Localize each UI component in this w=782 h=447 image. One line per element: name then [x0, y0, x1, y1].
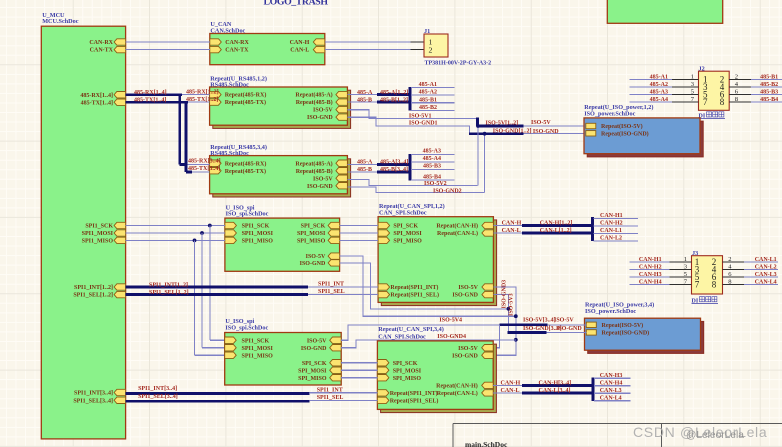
wire 485-A block2	[347, 163, 378, 165]
port SPI1_MISO ISO_spi2 left	[225, 352, 237, 358]
wire SPI1 from MCU	[126, 239, 225, 241]
junction	[514, 314, 518, 318]
port CAN-RX on U_MCU	[114, 39, 126, 45]
stub wire 485 group2 row3	[411, 169, 455, 171]
svg-text:ISO_spi.SchDoc: ISO_spi.SchDoc	[226, 211, 269, 218]
svg-text:Repeat(485-B): Repeat(485-B)	[296, 99, 333, 106]
junction	[193, 239, 197, 243]
wire ISO-5V3 vertical	[493, 287, 516, 355]
wire SPI	[340, 232, 379, 234]
svg-text:8: 8	[712, 279, 717, 289]
svg-text:485-A[3..4]: 485-A[3..4]	[380, 160, 408, 166]
svg-text:485-B: 485-B	[357, 167, 372, 173]
svg-text:SPI_SCK: SPI_SCK	[393, 224, 418, 230]
wire SPI1_SEL lower	[310, 399, 378, 401]
svg-text:CAN-L4: CAN-L4	[755, 280, 777, 286]
wire CAN-L3 from J3	[744, 276, 778, 278]
svg-text:2: 2	[429, 45, 433, 54]
svg-text:485-A1: 485-A1	[419, 82, 437, 88]
svg-text:SPI_MOSI: SPI_MOSI	[393, 231, 422, 237]
svg-text:Repeat(ISO-GND): Repeat(ISO-GND)	[601, 130, 649, 137]
svg-text:485-A: 485-A	[357, 160, 373, 166]
svg-text:485-A1: 485-A1	[650, 75, 668, 81]
svg-text:ISO-5V: ISO-5V	[458, 346, 478, 352]
riser to ISO_spi2	[201, 233, 203, 348]
wire SPI1 from MCU	[126, 225, 225, 227]
wire 485-A3 to J2	[630, 94, 672, 96]
svg-text:SPI1_MOSI: SPI1_MOSI	[242, 231, 274, 237]
svg-text:CAN-H4: CAN-H4	[639, 280, 662, 286]
svg-text:ISO_power.SchDoc: ISO_power.SchDoc	[585, 308, 636, 315]
svg-text:Repeat(485-RX): Repeat(485-RX)	[225, 92, 267, 99]
svg-text:SPI1_SCK: SPI1_SCK	[242, 338, 270, 344]
svg-text:ISO-5V: ISO-5V	[306, 254, 326, 260]
sheet symbol U_ISO_spi 1	[225, 218, 340, 271]
port CAN-TX on U_CAN left	[210, 46, 222, 52]
wire 485-B2 from J2	[751, 86, 782, 88]
svg-text:CAN-H: CAN-H	[501, 380, 521, 386]
svg-text:485-TX[1..4]: 485-TX[1..4]	[134, 98, 166, 104]
port Repeat(485-A) on RS485 3,4	[336, 160, 348, 166]
port Repeat(ISO-5V) ISO_power2	[586, 322, 596, 327]
wire CAN-H lower	[493, 384, 523, 386]
svg-text:Repeat(CAN-H): Repeat(CAN-H)	[436, 223, 478, 230]
wire SPI lower	[341, 362, 377, 364]
wire CAN-RX	[126, 41, 210, 43]
port ISO-5V CAN_SPI1 right	[482, 284, 494, 290]
svg-text:SPI_MISO: SPI_MISO	[297, 239, 326, 245]
svg-text:ISO-5V: ISO-5V	[307, 338, 327, 344]
svg-text:ISO-5V4: ISO-5V4	[439, 317, 462, 323]
svg-text:MCU.SchDoc: MCU.SchDoc	[42, 18, 79, 25]
svg-text:7: 7	[695, 279, 700, 289]
port CAN-TX on U_MCU	[114, 46, 126, 52]
svg-text:ISO_power.SchDoc: ISO_power.SchDoc	[584, 110, 635, 117]
pin 7 lead J2	[672, 101, 699, 103]
stub wire CAN group1	[594, 217, 638, 219]
wire CAN-L4 from J3	[744, 284, 778, 286]
svg-text:SPI_MISO: SPI_MISO	[298, 376, 327, 382]
stub wire CAN group1	[594, 225, 638, 227]
connector J1	[424, 34, 448, 57]
wire 485-A1 to J2	[630, 79, 672, 81]
wire CAN-TX	[126, 49, 210, 51]
port CAN-L on U_CAN right	[313, 46, 325, 52]
port ISO-5V on RS485 3,4	[336, 175, 348, 181]
svg-text:Repeat(SPI1_INT): Repeat(SPI1_INT)	[390, 284, 438, 291]
svg-text:SPI_MISO: SPI_MISO	[393, 239, 422, 245]
bus 485-A[3..4]	[377, 163, 411, 166]
port SPI_SCK ISO_spi2 right	[330, 360, 342, 366]
svg-text:485-RX[1..4]: 485-RX[1..4]	[80, 93, 113, 99]
svg-text:1: 1	[691, 73, 694, 80]
port SPI1_MOSI on U_MCU	[114, 230, 126, 236]
svg-text:J2: J2	[699, 65, 705, 72]
port Repeat(485-RX) on RS485 3,4	[210, 160, 222, 166]
svg-text:SPI1_MOSI: SPI1_MOSI	[242, 346, 274, 352]
svg-text:ISO-5V[3..4]: ISO-5V[3..4]	[523, 318, 556, 324]
svg-text:CAN-L2: CAN-L2	[600, 236, 622, 242]
svg-text:2: 2	[728, 256, 731, 263]
svg-text:SPI1_MISO: SPI1_MISO	[242, 239, 274, 245]
svg-text:SPI1_SEL: SPI1_SEL	[318, 289, 345, 295]
svg-text:Repeat(CAN-L): Repeat(CAN-L)	[437, 390, 478, 397]
svg-text:RS485.SchDoc: RS485.SchDoc	[210, 81, 249, 88]
port SPI1_INT[3..4] on U_MCU	[114, 389, 126, 395]
svg-text:ISO-5V2: ISO-5V2	[424, 181, 447, 187]
port Repeat(SPI1_SEL) CAN_SPI2 left	[377, 397, 389, 403]
wire 485-B3 from J2	[751, 94, 782, 96]
bus 485-B[1..2]	[377, 101, 411, 104]
svg-text:485-TX[1..2]: 485-TX[1..2]	[186, 97, 218, 103]
wire ISO-5V3 from ISO_spi1	[340, 256, 516, 316]
port SPI1_SEL[3..4] on U_MCU	[114, 397, 126, 403]
svg-text:CAN-H1: CAN-H1	[600, 213, 623, 219]
svg-text:SPI1_INT: SPI1_INT	[317, 388, 343, 394]
wire ISO-GND4	[341, 340, 516, 348]
wire CAN-L lower	[493, 392, 523, 394]
port Repeat(485-B) on RS485 3,4	[336, 168, 348, 174]
port SPI_MISO ISO_spi2 right	[330, 375, 342, 381]
pin 4 lead J2	[729, 86, 751, 88]
pin 1 lead J3	[670, 261, 692, 263]
svg-text:ISO-5V3: ISO-5V3	[509, 293, 515, 316]
port ISO-5V ISO_spi1 right	[328, 253, 340, 259]
wire ISO-GND1	[347, 117, 469, 134]
bus ISO-GND[3..4]	[508, 331, 547, 334]
junction	[483, 132, 487, 136]
stub wire CAN group2	[594, 377, 631, 379]
riser ISO-5V to block2	[477, 126, 479, 185]
sheet symbol top-right (cut off)	[607, 0, 722, 23]
stub wire CAN group2	[594, 392, 631, 394]
wire SPI1_INT	[308, 286, 378, 288]
svg-text:ISO-GND: ISO-GND	[307, 184, 333, 190]
svg-text:SPI_MOSI: SPI_MOSI	[297, 231, 326, 237]
pin 8 lead J3	[723, 284, 745, 286]
pin 2 lead J2	[729, 79, 751, 81]
svg-text:SPI1_MISO: SPI1_MISO	[242, 353, 274, 359]
svg-text:CAN-TX: CAN-TX	[225, 48, 249, 54]
svg-text:SPI1_SEL: SPI1_SEL	[317, 395, 344, 401]
svg-text:CAN_SPI.SchDoc: CAN_SPI.SchDoc	[378, 334, 426, 341]
sheet symbol Repeat(U_CAN_SPI,3,4)	[381, 344, 497, 413]
pin 5 lead J3	[670, 276, 692, 278]
svg-text:485-TX[1..4]: 485-TX[1..4]	[81, 100, 113, 106]
port SPI_MOSI ISO_spi2 right	[330, 367, 342, 373]
bus 485-RX[1..4]	[126, 93, 182, 96]
port ISO-GND ISO_spi1 right	[328, 260, 340, 266]
pin 1 lead J2	[672, 79, 699, 81]
wire to Repeat(485-RX) block2	[186, 163, 210, 165]
wire CAN-H2 to J3	[629, 269, 669, 271]
svg-text:485-B4: 485-B4	[760, 97, 778, 103]
port SPI_SCK ISO_spi1 right	[328, 222, 340, 228]
svg-text:CAN-H1: CAN-H1	[639, 257, 662, 263]
svg-text:CAN-H2: CAN-H2	[639, 265, 662, 271]
port Repeat(485-B) on RS485 1,2	[336, 99, 348, 105]
svg-text:Repeat(SPI1_SEL): Repeat(SPI1_SEL)	[390, 292, 439, 299]
svg-text:Repeat(CAN-H): Repeat(CAN-H)	[436, 383, 478, 390]
wire 485-B1 from J2	[751, 79, 782, 81]
port SPI_MISO CAN_SPI1 left	[378, 237, 390, 243]
port 485-RX[1..4] on U_MCU	[114, 92, 126, 98]
port SPI_MISO CAN_SPI2 left	[377, 375, 389, 381]
svg-text:SPI_SCK: SPI_SCK	[301, 224, 326, 230]
svg-text:CAN-L2: CAN-L2	[755, 265, 777, 271]
svg-text:485-A4: 485-A4	[423, 156, 441, 162]
pin 2 lead of J1	[411, 49, 425, 51]
port SPI1_MOSI ISO_spi1 left	[225, 230, 237, 236]
svg-text:485-B[1..2]: 485-B[1..2]	[380, 97, 408, 103]
sheet symbol Repeat(U_RS485,1,2)	[213, 90, 351, 128]
svg-text:CAN-L4: CAN-L4	[600, 396, 622, 402]
stub wire 485 group1 row1	[411, 87, 455, 89]
svg-text:LOGO_TRASH: LOGO_TRASH	[264, 0, 329, 7]
svg-text:485-A3: 485-A3	[650, 90, 668, 96]
svg-text:SPI1_INT[1..2]: SPI1_INT[1..2]	[149, 282, 188, 288]
port Repeat(ISO-GND) ISO_power2	[586, 330, 596, 335]
port ISO-5V CAN_SPI2 right	[482, 345, 494, 351]
svg-text:CAN-H[3..4]: CAN-H[3..4]	[539, 380, 572, 386]
svg-text:ISO-GND3: ISO-GND3	[501, 280, 507, 309]
wire ISO-GND to ISO_power2	[547, 331, 587, 333]
svg-text:Repeat(485-A): Repeat(485-A)	[295, 92, 332, 99]
sheet symbol U_ISO_spi 2	[225, 333, 342, 386]
svg-text:8: 8	[720, 97, 725, 107]
svg-text:CAN-H4: CAN-H4	[600, 381, 623, 387]
svg-text:485-RX[1..4]: 485-RX[1..4]	[134, 90, 167, 96]
junction	[514, 338, 518, 342]
svg-text:485-TX[3..4]: 485-TX[3..4]	[188, 166, 220, 172]
wire 485-A block1	[347, 94, 378, 96]
wire ISO-5V2	[347, 179, 477, 185]
pin 5 lead J2	[672, 94, 699, 96]
bus ISO-GND[1..2]	[469, 132, 524, 135]
svg-text:SPI1_SCK: SPI1_SCK	[85, 224, 113, 230]
svg-text:Repeat(ISO-5V): Repeat(ISO-5V)	[601, 123, 643, 130]
wire ISO-GND3 vertical	[493, 295, 508, 332]
port Repeat(485-TX) on RS485 1,2	[210, 99, 222, 105]
wire SPI1_INT lower	[310, 392, 378, 394]
svg-text:CAN-L: CAN-L	[502, 228, 521, 234]
stub wire CAN group2	[594, 400, 631, 402]
port ISO-5V ISO_spi2 right	[330, 337, 342, 343]
stub wire 485 group2 row1	[411, 154, 455, 156]
svg-text:2: 2	[735, 73, 738, 80]
stub wire 485 group1 row2	[411, 94, 455, 96]
svg-text:485-A2: 485-A2	[419, 90, 437, 96]
svg-text:ISO-GND: ISO-GND	[452, 293, 478, 299]
port SPI_SCK CAN_SPI1 left	[378, 222, 390, 228]
port Repeat(ISO-GND) ISO_power1	[586, 131, 596, 136]
pin 6 lead J3	[723, 276, 745, 278]
svg-text:485-RX[1..2]: 485-RX[1..2]	[186, 89, 219, 95]
port ISO-GND on RS485 1,2	[336, 114, 348, 120]
svg-text:SPI1_SEL[1..2]: SPI1_SEL[1..2]	[73, 293, 113, 299]
svg-text:Repeat(485-TX): Repeat(485-TX)	[225, 99, 266, 106]
bus vertical 485 group1	[408, 87, 411, 111]
svg-text:ISO-GND: ISO-GND	[300, 261, 326, 267]
svg-text:SPI1_MOSI: SPI1_MOSI	[82, 231, 114, 237]
svg-text:CAN-H: CAN-H	[290, 40, 310, 46]
wire ISO-GND2	[347, 187, 484, 193]
svg-text:ISO-GND: ISO-GND	[307, 115, 333, 121]
bus SPI1_INT[3..4]	[126, 392, 310, 395]
wire ISO-5V1	[347, 110, 477, 119]
riser to ISO_spi2	[209, 226, 211, 341]
svg-text:Repeat(485-TX): Repeat(485-TX)	[225, 168, 266, 175]
port ISO-GND on RS485 3,4	[336, 183, 348, 189]
port Repeat(CAN-L) CAN_SPI1 right	[482, 230, 494, 236]
wire ISO-5V4	[341, 325, 499, 340]
svg-text:CAN-RX: CAN-RX	[225, 40, 249, 46]
svg-text:485-A: 485-A	[357, 90, 373, 96]
wire to Repeat(485-TX) block1	[188, 101, 210, 103]
svg-text:ISO-GND: ISO-GND	[452, 353, 478, 359]
port SPI1_MISO ISO_spi1 left	[225, 237, 237, 243]
svg-text:ISO-5V: ISO-5V	[554, 318, 574, 324]
pin 3 lead J3	[670, 269, 692, 271]
bus SPI1_INT[1..2]	[126, 286, 308, 289]
junction	[208, 224, 212, 228]
svg-text:Repeat(U_CAN_SPI,3,4): Repeat(U_CAN_SPI,3,4)	[378, 326, 444, 333]
pin 2 lead J3	[723, 261, 745, 263]
wire 485-A4 to J2	[630, 101, 672, 103]
port ISO-5V on RS485 1,2	[336, 106, 348, 112]
svg-text:CAN-L: CAN-L	[290, 48, 309, 54]
port Repeat(485-RX) on RS485 1,2	[210, 91, 222, 97]
svg-text:RS485.SchDoc: RS485.SchDoc	[210, 150, 249, 157]
pin 7 lead J3	[670, 284, 692, 286]
stub wire 485 group1 row4	[411, 109, 455, 111]
svg-text:1: 1	[684, 256, 687, 263]
port SPI_MOSI CAN_SPI2 left	[377, 367, 389, 373]
svg-text:CAN-L[3..4]: CAN-L[3..4]	[539, 388, 571, 394]
svg-text:J1: J1	[424, 28, 430, 35]
bus 485-A[1..2]	[377, 93, 411, 96]
svg-text:CAN_SPI.SchDoc: CAN_SPI.SchDoc	[379, 209, 427, 216]
svg-text:Repeat(ISO-GND): Repeat(ISO-GND)	[602, 330, 650, 337]
port Repeat(485-TX) on RS485 3,4	[210, 168, 222, 174]
svg-text:SPI1_INT[3..4]: SPI1_INT[3..4]	[138, 386, 177, 392]
stub wire CAN group1	[594, 232, 638, 234]
port 485-TX[1..4] on U_MCU	[114, 99, 126, 105]
bus CAN-H[3..4]	[522, 384, 593, 387]
svg-text:CAN-L3: CAN-L3	[600, 388, 622, 394]
port SPI1_SCK ISO_spi1 left	[225, 222, 237, 228]
port Repeat(SPI1_SEL) CAN_SPI1 left	[378, 291, 390, 297]
bus vertical CAN group2	[592, 378, 595, 401]
svg-text:Repeat(SPI1_SEL): Repeat(SPI1_SEL)	[390, 398, 439, 405]
port SPI_MOSI CAN_SPI1 left	[378, 230, 390, 236]
svg-text:ISO-5V: ISO-5V	[531, 120, 551, 126]
bus 485-B[3..4]	[377, 170, 411, 173]
wire SPI1 from MCU	[126, 232, 225, 234]
svg-text:485-B3: 485-B3	[423, 164, 441, 170]
svg-text:ISO-5V: ISO-5V	[313, 176, 333, 182]
bus 485-RX riser	[178, 95, 181, 165]
svg-text:ISO-5V[1..2]: ISO-5V[1..2]	[486, 121, 519, 127]
port SPI_MOSI ISO_spi1 right	[328, 230, 340, 236]
bus CAN-L[3..4]	[522, 391, 593, 394]
svg-text:485-B4: 485-B4	[423, 174, 441, 180]
svg-text:SPI1_INT[3..4]: SPI1_INT[3..4]	[74, 391, 113, 397]
svg-text:485-B2: 485-B2	[419, 105, 437, 111]
wire SPI	[340, 225, 379, 227]
svg-text:485-A[1..2]: 485-A[1..2]	[380, 90, 408, 96]
svg-text:SPI_MISO: SPI_MISO	[393, 376, 422, 382]
svg-text:SPI1_INT: SPI1_INT	[318, 282, 344, 288]
svg-text:ISO-GND[1..2]: ISO-GND[1..2]	[493, 128, 532, 134]
svg-text:Repeat(485-A): Repeat(485-A)	[295, 160, 332, 167]
svg-text:ISO-GND4: ISO-GND4	[437, 334, 466, 340]
wire CAN-L to J1	[325, 49, 411, 51]
wire CAN-H4 to J3	[629, 284, 669, 286]
svg-text:CAN-L: CAN-L	[501, 388, 520, 394]
svg-text:ISO-GND: ISO-GND	[556, 326, 582, 332]
pin 1 lead of J1	[411, 41, 425, 43]
port SPI1_INT[1..2] on U_MCU	[114, 284, 126, 290]
wire to Repeat(485-RX) block1	[182, 94, 210, 96]
connector J3	[692, 256, 723, 294]
svg-text:485-B3: 485-B3	[760, 90, 778, 96]
port Repeat(SPI1_INT) CAN_SPI1 left	[378, 284, 390, 290]
port Repeat(ISO-5V) ISO_power1	[586, 123, 596, 128]
svg-text:485-RX[3..4]: 485-RX[3..4]	[188, 159, 221, 165]
svg-text:485-B2: 485-B2	[760, 82, 778, 88]
svg-text:SPI1_SEL[3..4]: SPI1_SEL[3..4]	[73, 398, 113, 404]
bus ISO-5V elbow	[476, 118, 479, 126]
svg-text:Repeat(SPI1_INT): Repeat(SPI1_INT)	[390, 390, 438, 397]
wire SPI	[340, 239, 379, 241]
pin 4 lead J3	[723, 269, 745, 271]
svg-text:CAN-RX: CAN-RX	[89, 40, 113, 46]
bus 485-TX[1..4]	[126, 101, 188, 104]
port SPI_MISO ISO_spi1 right	[328, 237, 340, 243]
svg-text:SPI1_SCK: SPI1_SCK	[242, 224, 270, 230]
svg-text:7: 7	[703, 97, 708, 107]
svg-text:485-A3: 485-A3	[423, 149, 441, 155]
port SPI1_MISO on U_MCU	[114, 237, 126, 243]
svg-text:485-B[3..4]: 485-B[3..4]	[380, 167, 408, 173]
wire CAN-H	[493, 225, 523, 227]
svg-text:CAN-TX: CAN-TX	[90, 48, 114, 54]
port Repeat(CAN-H) CAN_SPI1 right	[482, 222, 494, 228]
svg-text:485-B1: 485-B1	[760, 75, 778, 81]
svg-text:@LeleorLela: @LeleorLela	[686, 430, 744, 441]
svg-text:Repeat(CAN-L): Repeat(CAN-L)	[437, 230, 478, 237]
port Repeat(CAN-H) CAN_SPI2 right	[482, 382, 494, 388]
svg-text:TP381H-00V-2P-GY-A3-2: TP381H-00V-2P-GY-A3-2	[425, 60, 492, 66]
wire SPI lower	[341, 369, 377, 371]
svg-text:J3: J3	[692, 250, 698, 257]
pin 3 lead J2	[672, 86, 699, 88]
port SPI1_MOSI ISO_spi2 left	[225, 345, 237, 351]
wire CAN-H3 to J3	[629, 276, 669, 278]
svg-text:SPI_MOSI: SPI_MOSI	[393, 368, 422, 374]
port Repeat(CAN-L) CAN_SPI2 right	[482, 390, 494, 396]
junction	[200, 231, 204, 235]
connector J2	[699, 71, 730, 110]
sheet symbol Repeat(U_RS485,3,4)	[213, 159, 351, 197]
wire CAN_SPI2 ISO-5V riser	[493, 325, 499, 348]
wire ISO-5V into ISO_power1	[524, 125, 586, 127]
bus ISO-5V[1..2]	[478, 125, 524, 128]
svg-text:CAN-H3: CAN-H3	[639, 272, 662, 278]
sheet symbol Repeat(U_ISO_power,3,4)	[588, 321, 704, 353]
stub wire CAN group1	[594, 240, 638, 242]
